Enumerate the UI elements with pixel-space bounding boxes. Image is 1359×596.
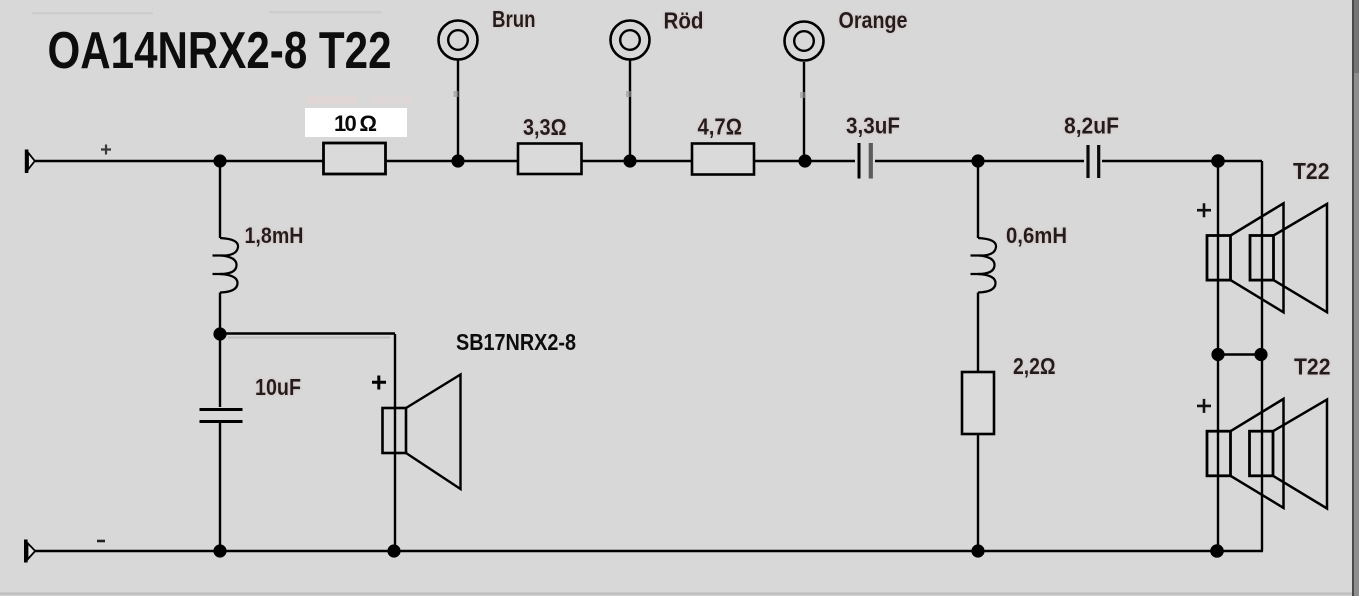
wire below 2,2ohm: [977, 434, 979, 551]
resistor 10 Ohm label box: [305, 108, 407, 137]
junction node C (630,161): [623, 154, 636, 167]
junction node (1261,354.5): [1254, 348, 1267, 361]
capacitor 3,3uF: [846, 113, 900, 179]
wire top main: [33, 160, 1262, 162]
wire to resistor 2,2ohm: [977, 293, 979, 373]
resistor R 10ohm body: [324, 143, 386, 174]
woofer SB17NRX2-8: [372, 329, 576, 551]
wire horizontal to woofer: [220, 332, 395, 335]
wire tweeter mid connector: [1218, 353, 1262, 355]
svg-text:8,2uF: 8,2uF: [1064, 113, 1119, 139]
capacitor 8,2uF: [1064, 113, 1119, 179]
junction node (1217,551): [1210, 544, 1224, 558]
inductor 0,6mH: [971, 238, 997, 293]
svg-text:3,3uF: 3,3uF: [846, 113, 900, 139]
svg-text:T22: T22: [1293, 158, 1330, 184]
wire tweeter left vertical: [1217, 161, 1219, 551]
terminal Orange: [785, 7, 908, 161]
wire tweeter right vertical: [1261, 161, 1263, 551]
svg-text:2,2Ω: 2,2Ω: [1013, 353, 1056, 379]
wire left branch lower: [219, 293, 221, 408]
resistor 2,2ohm: [962, 353, 1056, 434]
resistor 4,7ohm: [692, 114, 754, 175]
junction node E (978,161): [971, 154, 984, 167]
artifact tick on Orange wire: [800, 92, 805, 98]
svg-text:Orange: Orange: [839, 7, 908, 33]
tweeter T22 #2: [1197, 399, 1327, 509]
faint smudge line top left: [32, 12, 153, 15]
artifact tick on Rod wire: [626, 91, 631, 97]
artifact tick on Brun wire: [454, 91, 459, 97]
svg-text:Röd: Röd: [664, 8, 704, 34]
faint pink smudge above 10 ohm box: [306, 96, 356, 104]
resistor 3,3ohm: [518, 114, 582, 174]
terminal Brun: [439, 6, 536, 161]
svg-text:10uF: 10uF: [255, 374, 301, 400]
junction node D (805,161): [798, 154, 811, 167]
inductor 1,8mH: [213, 238, 239, 293]
svg-text:3,3Ω: 3,3Ω: [523, 114, 567, 140]
svg-text:0,6mH: 0,6mH: [1006, 223, 1067, 248]
junction node F (1218,161): [1211, 154, 1225, 168]
input terminal + (top left): [27, 145, 111, 174]
junction node (220,334): [213, 327, 226, 340]
input terminal - (bottom left): [26, 540, 105, 563]
wire right-mid branch upper: [977, 161, 979, 238]
wire bottom main: [33, 550, 1263, 552]
right edge band: [1352, 0, 1354, 596]
svg-text:SB17NRX2-8: SB17NRX2-8: [456, 329, 576, 355]
terminal Röd: [611, 8, 704, 162]
capacitor 10uF: [200, 374, 302, 422]
junction node (220,551): [213, 544, 226, 557]
svg-text:T22: T22: [1294, 354, 1331, 380]
svg-text:OA14NRX2-8 T22: OA14NRX2-8 T22: [48, 21, 392, 79]
svg-text:4,7Ω: 4,7Ω: [698, 114, 743, 140]
svg-text:Brun: Brun: [492, 6, 536, 32]
tweeter T22 #1: [1197, 203, 1327, 312]
bottom edge band: [0, 593, 1353, 595]
wire left branch upper: [219, 161, 221, 238]
junction node (1218,354.5): [1211, 348, 1224, 361]
junction node (394,551): [387, 544, 400, 557]
junction node B (458,161): [451, 154, 464, 167]
junction node A (220,161): [213, 154, 226, 167]
wire below 10uF: [219, 423, 221, 551]
svg-text:10 Ω: 10 Ω: [334, 111, 377, 136]
junction node (978,551): [971, 544, 984, 557]
faint smudge line top right: [269, 11, 382, 14]
svg-text:1,8mH: 1,8mH: [245, 223, 304, 248]
